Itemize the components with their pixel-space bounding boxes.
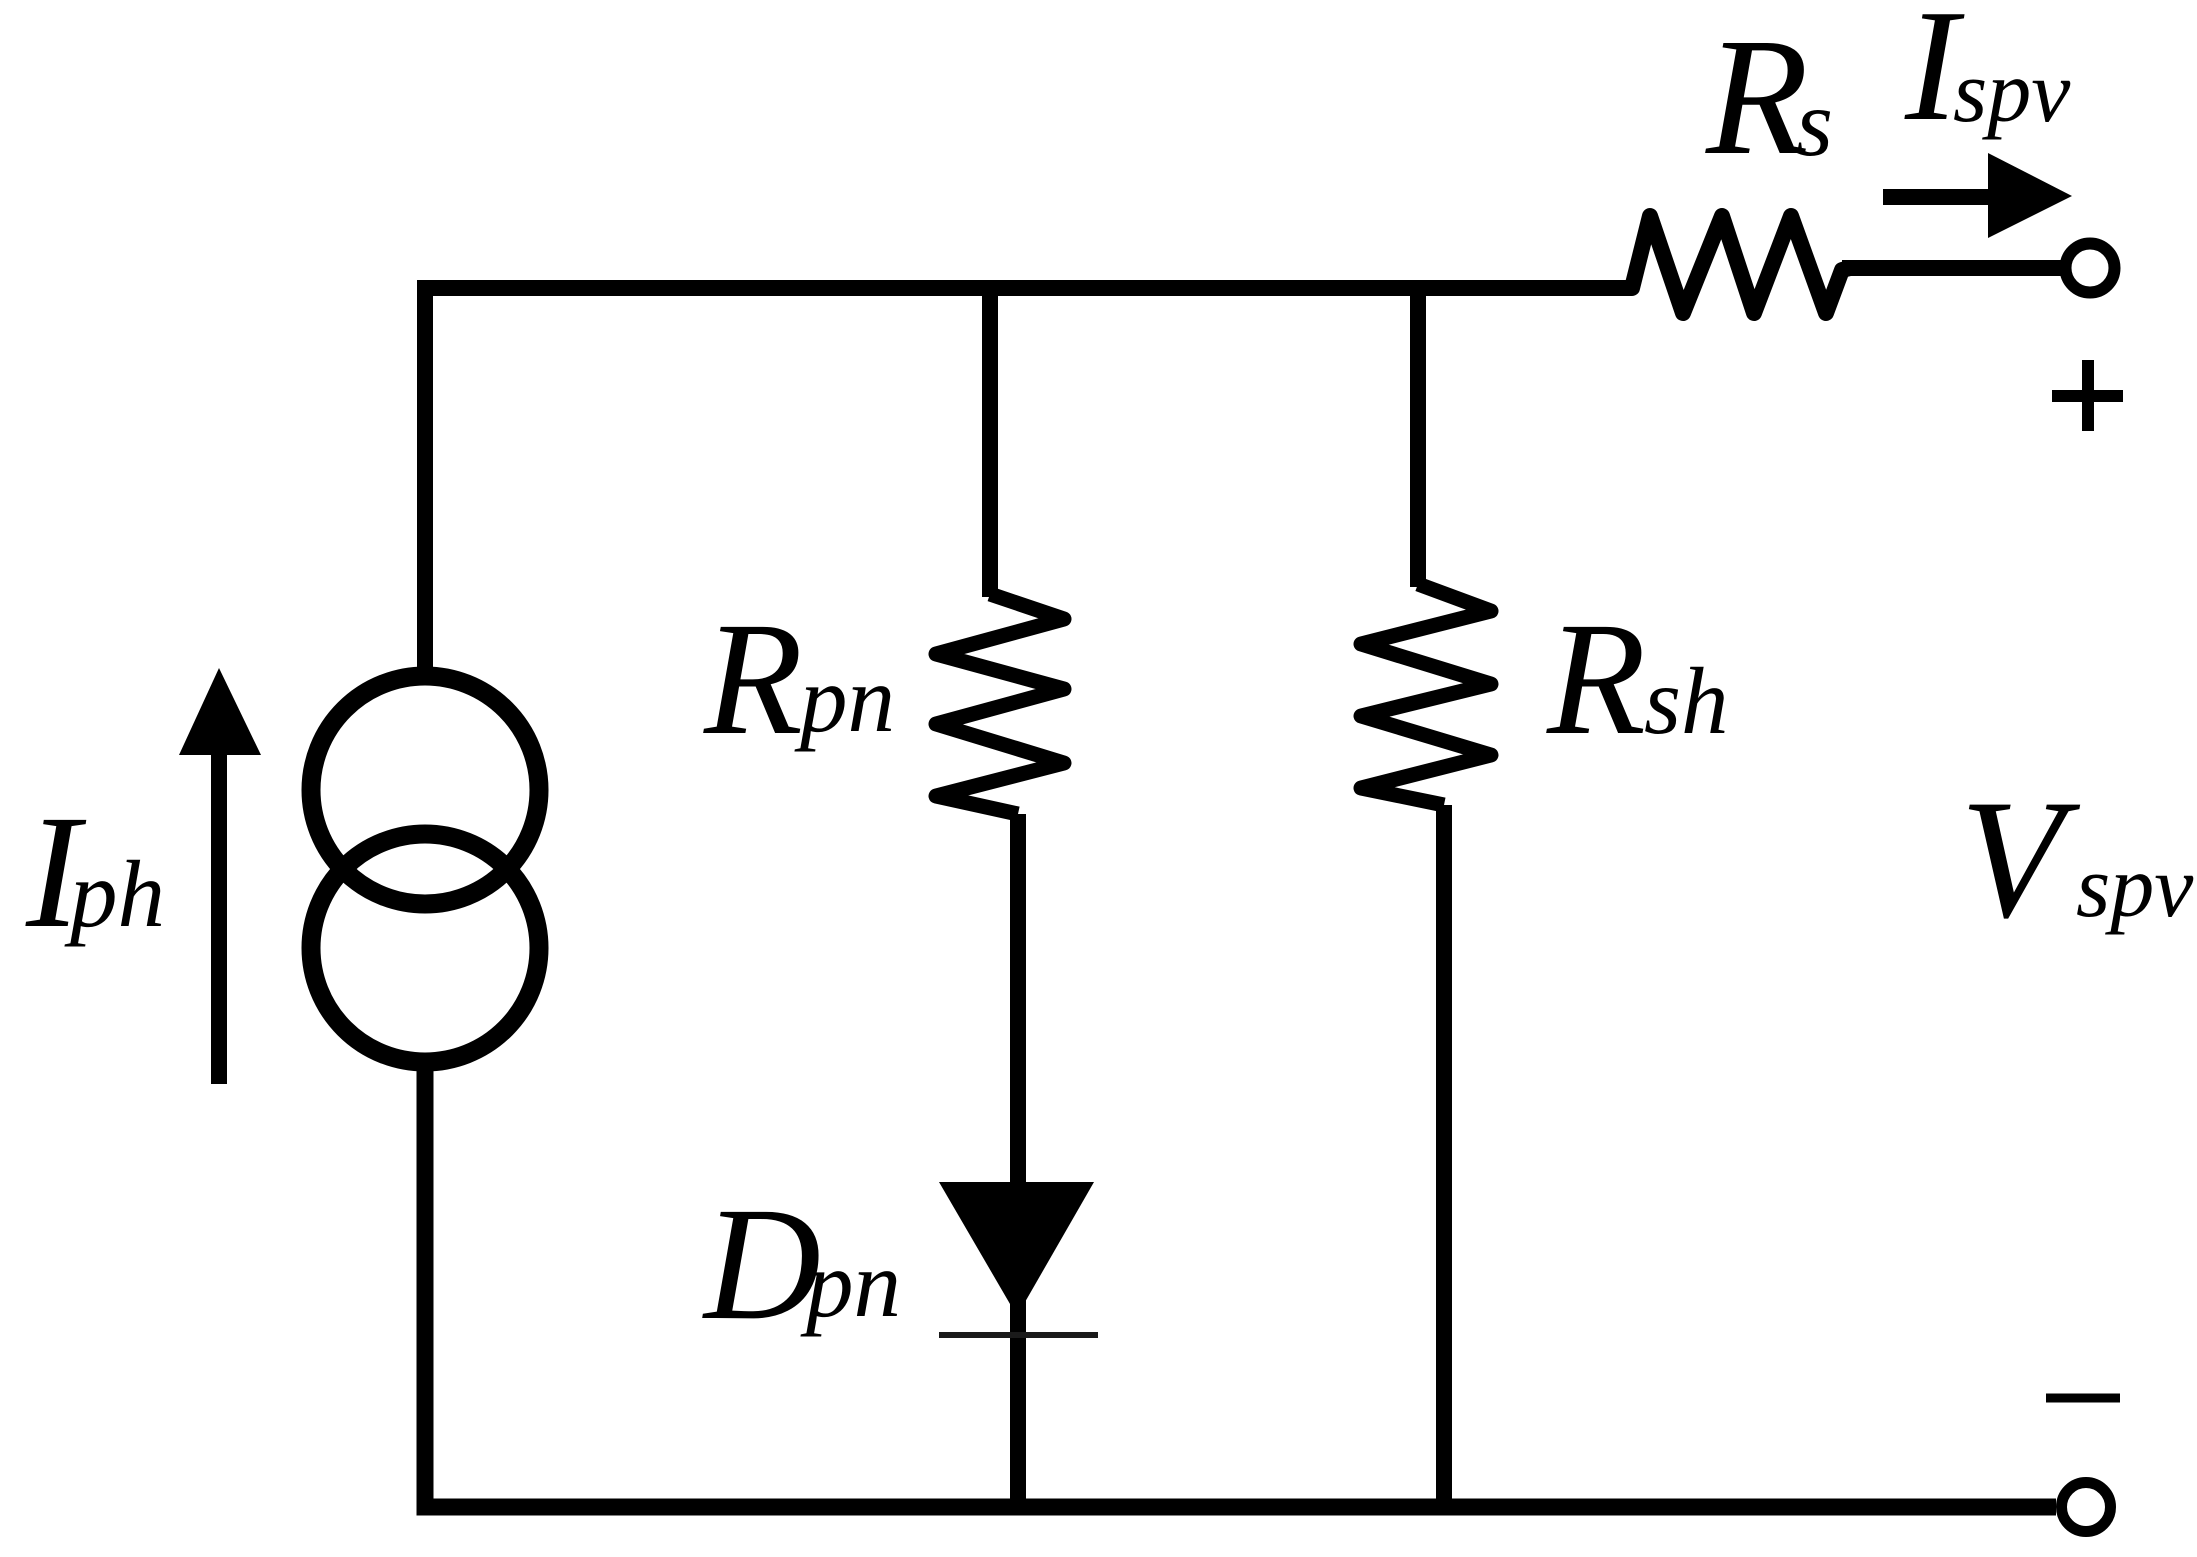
label D_pn — [702, 1175, 901, 1354]
label R_sh — [1546, 590, 1728, 769]
svg-text:spv: spv — [1953, 44, 2071, 141]
wire bottom bus and left vertical (bottom part) — [425, 1071, 2056, 1507]
resistor R_sh zigzag — [1361, 584, 1491, 805]
diode D_pn triangle — [939, 1182, 1094, 1316]
svg-text:spv: spv — [2076, 839, 2194, 936]
label I_ph — [25, 783, 165, 962]
svg-text:ph: ph — [64, 841, 165, 947]
svg-text:pn: pn — [794, 646, 895, 752]
diode D_pn cathode bar — [939, 1332, 1098, 1338]
label V_spv — [1960, 765, 2194, 953]
current source I_ph (two overlapping circles) — [311, 676, 539, 1062]
svg-text:R: R — [703, 590, 803, 769]
svg-text:V: V — [1960, 765, 2081, 953]
svg-text:pn: pn — [800, 1231, 901, 1337]
label R_pn — [703, 590, 895, 769]
label R_s — [1705, 4, 1833, 190]
minus sign — [2046, 1394, 2120, 1403]
svg-text:sh: sh — [1644, 648, 1728, 754]
wire from top bus to resistor R_pn — [982, 281, 998, 597]
svg-text:R: R — [1705, 4, 1809, 190]
arrow I_spv — [1883, 153, 2072, 238]
wire from top bus to resistor R_sh — [1410, 281, 1426, 587]
resistor R_s zigzag (horizontal) — [1618, 216, 1850, 313]
wire from R_s to positive terminal — [1842, 260, 2062, 276]
wire from R_sh down to bottom bus — [1436, 805, 1452, 1507]
wire from R_pn to diode and down to bottom bus — [1010, 814, 1026, 1507]
negative output terminal circle — [2062, 1483, 2111, 1532]
resistor R_pn zigzag — [936, 594, 1064, 814]
arrow of current source I_ph — [179, 668, 261, 1084]
wire top bus and left vertical (top part) — [425, 288, 1630, 668]
plus sign — [2052, 360, 2123, 431]
label I_spv — [1904, 0, 2071, 154]
svg-text:R: R — [1546, 590, 1646, 769]
positive output terminal circle — [2066, 244, 2115, 293]
svg-text:s: s — [1796, 70, 1833, 176]
svg-text:D: D — [702, 1175, 821, 1354]
